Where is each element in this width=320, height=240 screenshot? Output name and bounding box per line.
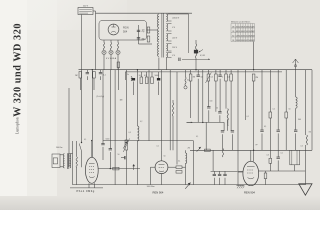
output tube REN904 right: [243, 161, 259, 185]
wire col81 down: [81, 70, 83, 142]
wire det coil top: [185, 150, 187, 153]
wire r216 stub: [215, 70, 217, 74]
pot arrow col126: [123, 139, 129, 153]
svg-text:0,1: 0,1: [187, 80, 189, 82]
wire c2 down: [100, 76, 102, 80]
capacitor 158 dark: [157, 78, 160, 81]
svg-text:50: 50: [164, 156, 166, 158]
capacitor under y171 3: [223, 174, 226, 175]
wire col295a: [295, 70, 297, 97]
svg-text:0,5 M: 0,5 M: [200, 55, 205, 57]
wire triode right: [168, 166, 176, 168]
wire r208 down: [207, 81, 209, 107]
bottom left rail: [70, 187, 103, 189]
resistor squiggle 305: [306, 135, 307, 145]
capacitor 220: [218, 75, 221, 76]
svg-text:24: 24: [232, 40, 234, 42]
junction dot y122: [202, 122, 203, 123]
capacitor 198: [197, 75, 200, 76]
potentiometer body: [194, 50, 198, 54]
transformer tap collector: [188, 14, 190, 53]
wire col305b: [304, 145, 306, 150]
transformer core: [161, 14, 163, 58]
svg-text:Dr: Dr: [127, 74, 129, 76]
wire lamp2 to bus: [110, 55, 112, 70]
wire secondary tap 6: [168, 40, 172, 42]
wire col 170: [169, 70, 171, 151]
wire triode bottom: [161, 174, 163, 185]
wire c208 down: [208, 110, 210, 122]
resistor 253 under bus: [252, 74, 255, 81]
svg-text:0,5: 0,5: [129, 132, 131, 134]
transformer primary winding 3: [158, 43, 159, 57]
wire col110 low: [109, 152, 111, 169]
wire secondary tap 5: [168, 33, 172, 35]
wire arrow col: [304, 150, 306, 183]
resistor 216: [215, 74, 218, 81]
wire c1 down: [86, 76, 88, 80]
wire rg right: [182, 166, 186, 168]
capacitor 232 low: [231, 131, 234, 132]
wire OT right: [72, 141, 74, 185]
svg-text:0,1: 0,1: [281, 153, 283, 155]
transformer primary winding 2: [158, 29, 159, 43]
svg-text:0,1: 0,1: [103, 75, 106, 77]
wire col 245: [244, 70, 246, 120]
capacitor 219 mid: [218, 112, 221, 113]
wire col203: [202, 70, 204, 123]
wire col278c: [277, 160, 279, 171]
svg-text:220 V: 220 V: [172, 37, 178, 39]
svg-text:0,3: 0,3: [267, 155, 269, 157]
wire 213 v: [212, 150, 214, 171]
svg-text:504: 504: [123, 31, 128, 34]
wire 224 v: [223, 122, 225, 130]
resistor output: [76, 157, 77, 168]
wire secondary tap 4: [168, 30, 172, 32]
det coil: [186, 153, 187, 163]
svg-text:50: 50: [118, 154, 120, 156]
wire r208 stub: [207, 70, 209, 74]
transformer secondary winding 2: [166, 24, 167, 32]
switch contact: [79, 144, 81, 152]
svg-text:0,1: 0,1: [264, 126, 266, 128]
wire mains drop left: [81, 15, 83, 70]
wire col92 down: [91, 70, 93, 158]
junction mid rail: [91, 140, 92, 141]
capacitor 4uF lower: [137, 38, 140, 39]
wire triode left drop: [150, 167, 152, 184]
wire r3 down: [93, 78, 95, 90]
wire det col down: [185, 167, 187, 184]
capacitor 262: [260, 130, 263, 131]
svg-text:2M: 2M: [256, 77, 259, 79]
svg-text:0,1: 0,1: [157, 146, 159, 148]
transformer secondary winding 3: [166, 34, 167, 42]
wire cap0 stub under y171: [213, 171, 215, 174]
wire mains drop right: [95, 11, 97, 70]
rectifier tube RGN 504: [108, 24, 119, 35]
screen resistor squiggle: [185, 77, 186, 86]
capacitor block dark: [132, 78, 135, 81]
resistor mains tap upper: [147, 27, 150, 33]
svg-text:0,2: 0,2: [273, 109, 275, 111]
wire OT top: [70, 153, 73, 155]
wire col126 low: [125, 150, 127, 185]
main bus: [79, 69, 313, 71]
wire lamp1 to bus: [103, 55, 105, 70]
wire r226 stub: [225, 70, 227, 74]
wire cap2 to bottom bus: [224, 178, 226, 185]
capacitor under y171 2: [218, 174, 221, 175]
mains plug arrow: [299, 184, 312, 195]
svg-text:1M: 1M: [193, 77, 196, 79]
wire right edge drop: [311, 70, 313, 151]
svg-text:REN 904: REN 904: [153, 190, 164, 194]
wire col206 mid: [205, 122, 207, 150]
svg-text:2M: 2M: [188, 148, 191, 150]
heater choke 3: [117, 43, 118, 51]
wire secondary bottom to bus: [165, 58, 167, 70]
svg-text:26: 26: [232, 31, 234, 33]
wire col 110 down: [109, 70, 111, 149]
wire col103 down: [102, 70, 104, 144]
wire 227 down: [227, 120, 229, 131]
capacitor 278 low: [277, 157, 280, 158]
resistor triode grid2: [176, 171, 182, 174]
wire tube pin2: [94, 183, 96, 188]
wire col 305: [304, 70, 306, 135]
svg-text:2x300 V: 2x300 V: [172, 17, 180, 19]
capacitor col110: [109, 149, 112, 150]
dial lamp 1: [102, 50, 106, 54]
svg-text:300: 300: [298, 119, 301, 121]
wire r190 stub: [190, 70, 192, 74]
svg-text:μμ: μμ: [256, 144, 258, 146]
resistor 223 low: [222, 149, 223, 157]
resistor r3: [93, 72, 96, 79]
resistor col126: [125, 140, 128, 150]
wire col278b: [277, 133, 279, 157]
svg-text:0,5: 0,5: [301, 146, 303, 148]
junction bus 92: [92, 69, 93, 70]
mains input terminal block: [78, 8, 93, 15]
wire primary bottom to bus: [158, 58, 160, 70]
resistor 146: [145, 77, 148, 84]
resistor 190: [189, 74, 192, 81]
wire secondary tap 9: [168, 52, 172, 54]
IF resistor squiggle: [172, 103, 173, 116]
potentiometer wiper arrow: [199, 50, 203, 53]
wire col270 mid: [269, 118, 271, 158]
wire pot top: [195, 40, 197, 44]
wire c-block down: [132, 82, 134, 96]
wire speaker top: [60, 154, 64, 156]
svg-text:34: 34: [252, 35, 254, 37]
wire r152 stub: [151, 72, 153, 77]
svg-text:(26330): (26330): [228, 119, 230, 126]
capacitor c1: [86, 73, 89, 74]
wire cap to transformer: [139, 43, 153, 45]
wire c1 stub: [86, 70, 88, 73]
wire speaker bottom: [60, 166, 64, 168]
resistor triode grid: [176, 166, 182, 169]
wire cap1 to bottom bus: [219, 178, 221, 185]
wire secondary tap 10: [168, 57, 172, 59]
svg-text:5000: 5000: [155, 75, 159, 77]
voltage table grid: [231, 24, 255, 42]
wire col262c: [261, 133, 263, 150]
arrow on rail y122: [187, 122, 193, 124]
svg-text:2: 2: [222, 77, 223, 79]
resistor on rail 150: [205, 149, 211, 151]
svg-text:0,5: 0,5: [211, 77, 213, 79]
wire r141 stub: [140, 72, 142, 77]
bottom bus: [73, 184, 307, 186]
wire secondary tap 3: [168, 23, 172, 25]
svg-text:500 Ωm: 500 Ωm: [56, 147, 63, 149]
capacitor 4uF upper: [137, 30, 140, 31]
wire det coil bot: [185, 163, 187, 167]
secondary bus: [125, 71, 282, 73]
resistor 141: [140, 77, 143, 84]
svg-text:62: 62: [232, 35, 234, 37]
mid rail: [103, 140, 193, 142]
grid arrow: [132, 164, 135, 170]
wire cap0 to bottom bus: [213, 178, 215, 185]
chassis ground hatch: [237, 186, 245, 189]
wire c220 down: [219, 79, 221, 112]
wire r226 down: [225, 81, 227, 109]
wire col118 down: [117, 70, 119, 90]
wire col 115: [114, 70, 116, 185]
wire c219 down: [219, 115, 221, 122]
wire col295c: [295, 133, 297, 150]
rail y150: [190, 149, 312, 151]
potentiometer 0,5M: [195, 44, 196, 58]
wire AV line with arrow: [182, 59, 210, 61]
wire rout top: [76, 141, 78, 157]
heater choke 1: [103, 43, 104, 51]
wire 232 low: [231, 134, 233, 150]
antenna symbol: [293, 59, 299, 70]
wire r216 down: [215, 81, 217, 112]
svg-text:0,1: 0,1: [196, 136, 198, 138]
svg-text:0,2: 0,2: [140, 121, 142, 123]
wire cap2 stub under y171: [224, 171, 226, 174]
wire c2 stub: [100, 70, 102, 73]
svg-text:110: 110: [142, 30, 145, 32]
wire col125: [124, 72, 126, 80]
wire r oval bot: [265, 179, 267, 185]
wire r146 stub: [146, 72, 148, 77]
svg-text:4 V: 4 V: [172, 55, 176, 57]
svg-text:1M: 1M: [309, 132, 312, 134]
dial lamp 2: [109, 50, 113, 54]
wire table to bus: [253, 42, 255, 70]
dial lamp 3: [116, 50, 120, 54]
wire c198 down: [197, 79, 199, 123]
wire oval left drop: [237, 172, 239, 185]
wire mains to top rail: [93, 10, 96, 12]
wire tube anode: [91, 141, 93, 158]
capacitor col103: [101, 144, 104, 145]
svg-text:0,1: 0,1: [84, 139, 86, 141]
capacitor c2: [99, 73, 102, 74]
cap link wire: [121, 157, 125, 159]
wire secondary tap 7: [168, 43, 172, 45]
wire c198 stub: [197, 70, 199, 75]
wire r231 stub: [230, 70, 232, 74]
wire col118 stub: [117, 68, 119, 70]
resistor 152: [151, 77, 154, 84]
diode arrow on rail: [197, 147, 201, 152]
svg-text:50: 50: [289, 109, 291, 111]
junction bus 253: [253, 69, 254, 70]
wire col137 low: [136, 140, 138, 184]
svg-text:0,2: 0,2: [144, 75, 147, 77]
capacitor under y171 1: [213, 174, 216, 175]
svg-text:RGN: RGN: [123, 27, 129, 30]
capacitor 278 mid: [277, 130, 280, 131]
wire r231 down: [230, 81, 232, 131]
svg-text:Meßwerte an den Röhren: Meßwerte an den Röhren: [231, 20, 250, 23]
wire triode top: [161, 150, 163, 161]
wire 222 low: [222, 134, 224, 150]
wire rectifier loop: [99, 21, 147, 41]
diode arrow bottom: [185, 183, 190, 189]
wire triode left: [151, 166, 156, 168]
svg-text:50: 50: [201, 77, 203, 79]
capacitor 222 low: [221, 131, 224, 132]
rail y171: [211, 170, 243, 172]
svg-text:62: 62: [252, 31, 254, 33]
diode arrow left: [123, 141, 127, 148]
svg-text:2M: 2M: [75, 75, 78, 77]
grid wire: [98, 168, 140, 170]
wire col103 low: [102, 147, 104, 160]
wire OT rail: [68, 154, 70, 167]
resistor 208 pot: [207, 74, 210, 81]
junction bus 137: [137, 69, 138, 70]
wire c220 stub: [219, 70, 221, 75]
wire col295b: [295, 108, 297, 130]
rail y171 right: [263, 170, 305, 172]
wire cap1 stub under y171: [219, 171, 221, 174]
output tube RES964: [85, 157, 98, 183]
pot arrow 208: [206, 73, 212, 84]
wire col270b: [269, 163, 271, 171]
output transformer secondary: [70, 154, 71, 168]
wire loop to transformer: [147, 29, 158, 31]
speaker feed: [68, 88, 70, 154]
capacitor 295: [294, 130, 297, 131]
svg-text:0,1: 0,1: [247, 116, 249, 118]
wire block down: [294, 165, 296, 171]
wire col 193 down: [192, 141, 194, 185]
wire col286b: [285, 118, 287, 150]
heater choke 2: [110, 43, 111, 51]
wire col149 down: [148, 70, 150, 141]
wire r190 down: [190, 81, 192, 118]
coupling capacitor AV: [179, 58, 180, 61]
capacitor 208 mid: [207, 107, 210, 108]
wire r2m down: [79, 78, 81, 90]
rail y122: [187, 121, 225, 123]
wire choke 2 top: [110, 40, 112, 43]
wire choke 1 top: [103, 40, 105, 43]
resistor right of oval: [264, 173, 267, 179]
svg-text:4 μ: 4 μ: [142, 31, 145, 33]
wire col 270: [269, 70, 271, 112]
wire rout bottom: [76, 168, 78, 185]
RF coil 295: [296, 97, 297, 108]
wire oval top: [250, 150, 252, 161]
wire col286a: [285, 70, 287, 112]
wire col 238: [237, 70, 239, 172]
wire col 278: [277, 70, 279, 130]
svg-text:Pho1 0M3g: Pho1 0M3g: [77, 189, 95, 193]
svg-text:50: 50: [139, 75, 141, 77]
resistor 270: [269, 158, 272, 163]
svg-text:W 320 und WD 320: W 320 und WD 320: [13, 23, 24, 117]
wire tap top to collector: [172, 13, 189, 15]
loudspeaker: [52, 154, 60, 168]
resistor 286: [285, 112, 288, 118]
wire col126 down: [125, 70, 127, 140]
resistor 226: [225, 74, 228, 81]
output transformer primary: [63, 154, 64, 168]
resistor 231: [230, 74, 233, 81]
electrolytic block: [290, 150, 300, 165]
wire secondary tap 1: [168, 13, 172, 15]
wire tube pin1: [88, 183, 90, 188]
svg-text:100: 100: [210, 101, 213, 103]
wire pot to bus: [195, 58, 197, 70]
svg-text:0,1: 0,1: [228, 77, 230, 79]
wire secondary tap 8: [168, 50, 172, 52]
svg-text:220 V: 220 V: [83, 6, 89, 8]
wire col 177: [176, 72, 178, 165]
wire secondary tap 2: [168, 20, 172, 22]
resistor mains tap lower: [147, 36, 150, 42]
svg-text:48: 48: [232, 26, 234, 28]
wire col81 low: [81, 151, 83, 167]
wire oval right: [259, 170, 263, 172]
svg-text:0,1: 0,1: [178, 161, 180, 163]
junction rail 110: [110, 168, 111, 169]
transformer primary winding 1: [158, 14, 159, 28]
wire r oval top: [265, 171, 267, 173]
svg-text:1M: 1M: [120, 100, 123, 102]
svg-text:500 Ωm: 500 Ωm: [147, 186, 155, 188]
resistor 227 mid: [227, 109, 228, 120]
transformer secondary winding 5: [166, 53, 167, 58]
wire c158 down: [158, 82, 160, 96]
wire squig173 bot: [172, 116, 174, 150]
wire col253 down: [253, 81, 255, 161]
svg-text:25: 25: [252, 26, 254, 28]
AF choke col137: [137, 126, 139, 141]
transformer secondary winding 1: [166, 14, 167, 22]
junction bus 196: [195, 69, 196, 70]
grid capacitor: [125, 156, 126, 159]
wire heater col: [161, 70, 163, 151]
wire col137 down: [136, 70, 138, 126]
resistor 270 upper: [269, 112, 272, 118]
transformer secondary winding 4: [166, 44, 167, 52]
wire cap branch: [138, 25, 140, 44]
